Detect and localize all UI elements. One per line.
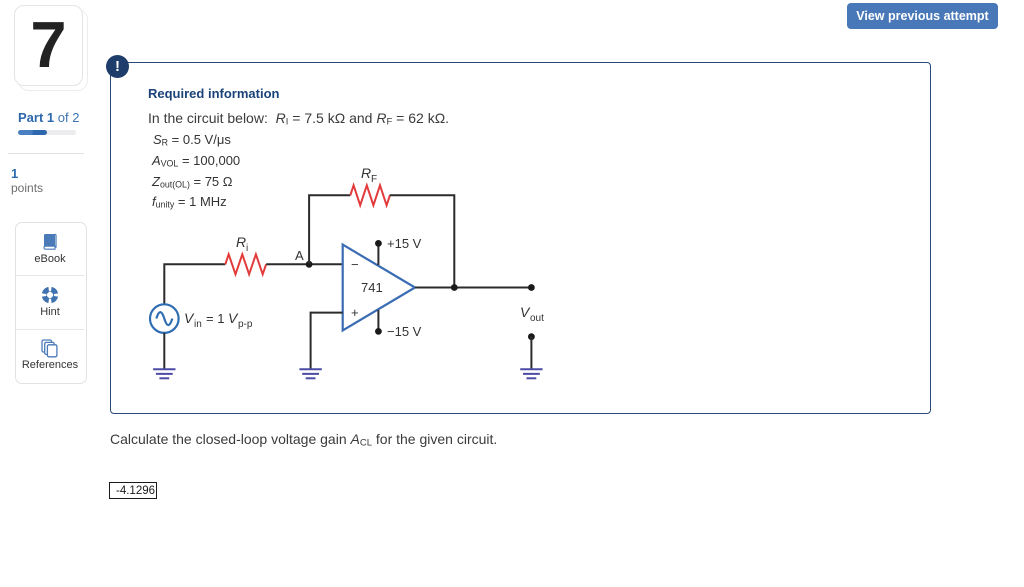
svg-text:R: R — [236, 234, 246, 250]
node A junction dot — [306, 261, 313, 268]
question number card — [14, 5, 83, 86]
svg-text:+15 V: +15 V — [387, 236, 422, 251]
svg-text:R: R — [361, 165, 371, 181]
svg-text:p-p: p-p — [238, 319, 253, 330]
wire: output — [415, 287, 531, 289]
+15V terminal dot — [375, 240, 382, 247]
wire: RF to output branch — [390, 195, 455, 287]
ground (source) — [153, 369, 175, 378]
wire: non-inverting input to ground — [311, 313, 343, 370]
junction dot feedback/output — [451, 284, 458, 291]
References icon (stacked pages) — [41, 339, 59, 358]
svg-text:out: out — [530, 313, 544, 324]
intro paragraph — [148, 110, 449, 126]
label RF — [361, 165, 377, 185]
svg-text:−15 V: −15 V — [387, 324, 422, 339]
ground (output) — [520, 369, 542, 378]
-15V terminal dot — [375, 328, 382, 335]
parameter list — [153, 132, 231, 147]
svg-text:F: F — [371, 174, 377, 185]
main question box — [110, 62, 931, 414]
output terminal dot — [528, 284, 535, 291]
ground (non-inverting input) — [299, 369, 321, 378]
label Vin = 1 Vp-p — [184, 310, 253, 330]
wire: +15V supply stub — [377, 243, 379, 265]
svg-text:−: − — [351, 257, 359, 272]
wire: Vout ground stub — [530, 337, 532, 370]
eBook icon — [41, 233, 59, 251]
op-amp U1 (741) — [343, 245, 415, 331]
Vout ground stub dot — [528, 333, 535, 340]
svg-text:741: 741 — [361, 280, 383, 295]
label Vout — [520, 304, 544, 324]
svg-text:= 1: = 1 — [206, 311, 224, 326]
svg-text:A: A — [295, 248, 304, 263]
source Vin (sine) — [150, 304, 179, 333]
required information heading — [148, 86, 279, 101]
svg-text:i: i — [246, 243, 248, 254]
exclamation badge — [106, 55, 129, 78]
View previous attempt button — [847, 3, 998, 29]
wire: feedback loop up and across — [309, 195, 350, 264]
points — [11, 166, 18, 181]
tools panel — [15, 222, 87, 384]
wire: input source top to Ri — [164, 264, 225, 304]
part indicator — [18, 110, 79, 125]
wire: source bottom to ground — [163, 333, 165, 369]
wire: Ri to op-amp inverting input — [266, 263, 343, 265]
resistor Ri — [225, 254, 266, 274]
Hint icon (lifebuoy) — [41, 286, 59, 304]
progress bar — [18, 130, 76, 135]
wire: -15V supply stub — [377, 310, 379, 331]
svg-text:+: + — [351, 305, 359, 320]
question text — [110, 431, 497, 447]
answer input — [109, 482, 157, 499]
resistor RF — [350, 185, 390, 205]
divider — [8, 153, 84, 154]
label Ri — [236, 234, 248, 254]
svg-text:in: in — [194, 319, 202, 330]
